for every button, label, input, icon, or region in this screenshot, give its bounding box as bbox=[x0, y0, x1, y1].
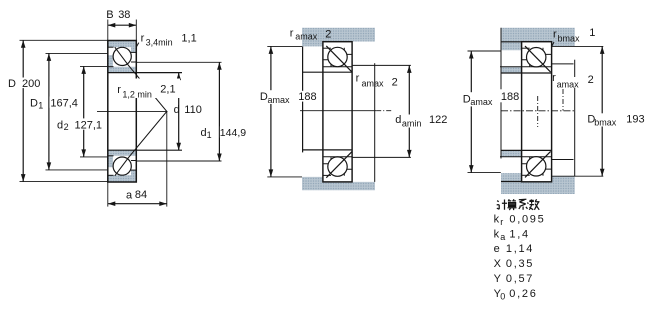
svg-text:1: 1 bbox=[207, 130, 212, 140]
svg-text:d: d bbox=[174, 104, 180, 116]
svg-text:X: X bbox=[494, 258, 502, 270]
housing wall vertical line bbox=[500, 28, 502, 159]
outer ring section (top, hatched) bbox=[108, 41, 137, 53]
shaft shoulder block upper left (gray) bbox=[501, 67, 522, 73]
svg-text:144,9: 144,9 bbox=[220, 127, 246, 139]
d1 dimension (144,9) bbox=[137, 61, 222, 63]
ball (bottom) bbox=[328, 157, 347, 176]
D1 dimension (167,4) bbox=[46, 52, 108, 54]
inner ring section (bottom, hatched) bbox=[108, 150, 137, 168]
label ramax 2 (right figure) bbox=[556, 77, 581, 88]
shaft shoulder section (bottom, gray) bbox=[302, 177, 375, 190]
label r1,2 min 2,1 on white box bbox=[112, 79, 180, 99]
a dimension (84) bbox=[107, 182, 109, 207]
label r3,4min 1,1 with leader bbox=[136, 43, 138, 47]
race lines (top block) bbox=[108, 46, 114, 48]
svg-text:110: 110 bbox=[184, 104, 202, 116]
svg-text:38: 38 bbox=[118, 9, 130, 21]
shaft shoulder line (upper right) bbox=[352, 64, 411, 66]
svg-text:k: k bbox=[494, 213, 500, 225]
svg-text:193: 193 bbox=[626, 114, 644, 126]
outer race lines (bottom block) bbox=[323, 174, 331, 176]
svg-text:D: D bbox=[8, 78, 16, 90]
damin dimension (122) bbox=[408, 65, 410, 157]
svg-text:200: 200 bbox=[22, 78, 40, 90]
right boundary vertical line bbox=[574, 60, 576, 177]
inner race lines (top block) bbox=[522, 60, 530, 67]
svg-text:2: 2 bbox=[392, 76, 398, 88]
table: calculation factors bbox=[494, 199, 546, 301]
svg-text:amax: amax bbox=[362, 79, 385, 89]
ball (top) bbox=[113, 47, 131, 65]
svg-text:2: 2 bbox=[325, 28, 331, 40]
ball (bottom) bbox=[113, 157, 131, 175]
contact line (bottom ball) bbox=[326, 152, 352, 178]
d dimension (110) bbox=[178, 73, 180, 151]
svg-text:r: r bbox=[356, 72, 360, 84]
svg-text:bmax: bmax bbox=[594, 118, 617, 128]
left figure: bearing cross-section with main dimensions bbox=[8, 9, 254, 207]
inner ring section (top, hatched) bbox=[108, 55, 137, 73]
bore line bottom bbox=[108, 149, 182, 151]
housing bore line across band (top) bbox=[501, 41, 522, 43]
svg-text:d: d bbox=[395, 114, 401, 126]
svg-text:3,4min: 3,4min bbox=[146, 37, 173, 47]
inner race lines (bottom block) bbox=[323, 157, 331, 164]
bore line top bbox=[501, 72, 552, 74]
inner race lines (bottom block) bbox=[522, 157, 530, 164]
svg-text:e: e bbox=[494, 243, 500, 255]
svg-text:2: 2 bbox=[64, 122, 69, 132]
svg-text:1: 1 bbox=[589, 27, 595, 39]
svg-text:1,1: 1,1 bbox=[181, 32, 196, 44]
svg-text:r: r bbox=[553, 28, 557, 40]
shaft end face line bbox=[302, 46, 304, 152]
Dbmax dimension (193) bbox=[552, 45, 604, 47]
outer ring section (bottom, hatched) bbox=[108, 170, 137, 182]
Damax dimension (188) right figure bbox=[468, 50, 501, 52]
svg-text:84: 84 bbox=[135, 189, 147, 201]
svg-text:r: r bbox=[141, 32, 145, 44]
bearing outline rectangle bbox=[108, 41, 137, 183]
Damax dimension (188) bbox=[267, 45, 302, 47]
B dimension: extension lines, line, arrows bbox=[107, 20, 109, 41]
svg-text:0,095: 0,095 bbox=[509, 213, 545, 225]
svg-text:a: a bbox=[126, 189, 133, 201]
svg-text:127,1: 127,1 bbox=[75, 119, 103, 131]
outer race lines (bottom block) bbox=[522, 174, 530, 176]
middle figure: abutment dimensions da, Da, ra bbox=[259, 27, 447, 190]
housing section (top, gray) bbox=[501, 28, 575, 51]
svg-text:0: 0 bbox=[500, 292, 505, 302]
svg-text:r: r bbox=[552, 72, 556, 84]
svg-text:2: 2 bbox=[588, 74, 594, 86]
heading 计算系数 (drawn as strokes) bbox=[497, 199, 540, 210]
contact angle line upper bbox=[115, 47, 167, 111]
svg-text:0,57: 0,57 bbox=[506, 273, 534, 285]
outer race lines (top block) bbox=[522, 47, 530, 49]
ball (top) bbox=[328, 47, 347, 66]
bearing outline rectangle bbox=[522, 42, 552, 182]
bearing outline rectangle bbox=[323, 42, 352, 182]
contact line (top ball) bbox=[326, 46, 352, 72]
shaft shoulder line (lower right) bbox=[352, 156, 411, 158]
svg-text:0,35: 0,35 bbox=[506, 258, 534, 270]
shaft shoulder line upper right bbox=[552, 63, 574, 65]
svg-text:d: d bbox=[57, 119, 63, 131]
shaft shoulder bottom edge (left) bbox=[500, 156, 522, 158]
svg-text:Y: Y bbox=[494, 273, 502, 285]
contact line (bottom ball) bbox=[525, 151, 551, 177]
shaft shoulder line lower right bbox=[552, 159, 574, 161]
right figure: abutment dimensions Da, Db, ra, rb bbox=[462, 27, 645, 194]
svg-text:2,1: 2,1 bbox=[160, 83, 175, 95]
svg-text:amax: amax bbox=[470, 97, 493, 107]
contact line (top ball) bbox=[525, 46, 551, 72]
svg-text:a: a bbox=[500, 232, 505, 242]
inner race lines (top block) bbox=[323, 60, 331, 67]
housing shoulder section (top, gray) bbox=[302, 28, 375, 47]
bore seat line bottom bbox=[303, 149, 353, 151]
svg-text:r: r bbox=[500, 217, 503, 227]
shoulder face vertical line bbox=[374, 63, 376, 182]
svg-text:1,4: 1,4 bbox=[509, 228, 529, 240]
D dimension (200) bbox=[20, 39, 108, 41]
svg-text:bmax: bmax bbox=[558, 34, 581, 44]
outer race lines (top block) bbox=[323, 47, 331, 49]
vertical centerline mark bbox=[537, 96, 539, 127]
ball (bottom) bbox=[527, 157, 546, 176]
svg-text:D: D bbox=[30, 98, 38, 110]
svg-text:1,14: 1,14 bbox=[506, 243, 534, 255]
housing bore line across band (bottom) bbox=[501, 181, 522, 183]
svg-text:188: 188 bbox=[501, 91, 519, 103]
svg-text:167,4: 167,4 bbox=[50, 98, 78, 110]
race lines (bottom block) bbox=[108, 174, 114, 176]
svg-text:amin: amin bbox=[402, 119, 422, 129]
svg-text:188: 188 bbox=[298, 91, 316, 103]
axis centerline to contact vertex bbox=[97, 110, 168, 112]
svg-text:r: r bbox=[117, 84, 121, 96]
contact angle line lower bbox=[115, 111, 167, 175]
axis centerline bbox=[300, 110, 376, 112]
shaft shoulder block lower left (gray) bbox=[501, 151, 522, 157]
bore line bottom bbox=[501, 149, 552, 151]
label rbmax 1 with leader bbox=[552, 42, 554, 46]
svg-text:0,26: 0,26 bbox=[509, 288, 537, 300]
svg-text:k: k bbox=[494, 228, 500, 240]
shaft shoulder top edge (left) bbox=[500, 66, 522, 68]
short vertical dash-dot bbox=[562, 89, 564, 111]
axis centerline bbox=[501, 110, 575, 112]
svg-text:amax: amax bbox=[268, 95, 291, 105]
svg-text:B: B bbox=[106, 9, 113, 21]
svg-text:r: r bbox=[290, 27, 294, 39]
ball (top) bbox=[527, 48, 546, 67]
svg-text:1: 1 bbox=[38, 100, 43, 110]
svg-text:amax: amax bbox=[295, 31, 318, 41]
housing section (bottom, gray) bbox=[501, 173, 575, 194]
svg-text:122: 122 bbox=[429, 114, 447, 126]
bore line top bbox=[108, 72, 182, 74]
bore seat line top bbox=[303, 71, 353, 73]
svg-text:1,2 min: 1,2 min bbox=[122, 89, 152, 99]
svg-text:amax: amax bbox=[557, 79, 580, 89]
d2 dimension (127,1) bbox=[80, 65, 108, 67]
